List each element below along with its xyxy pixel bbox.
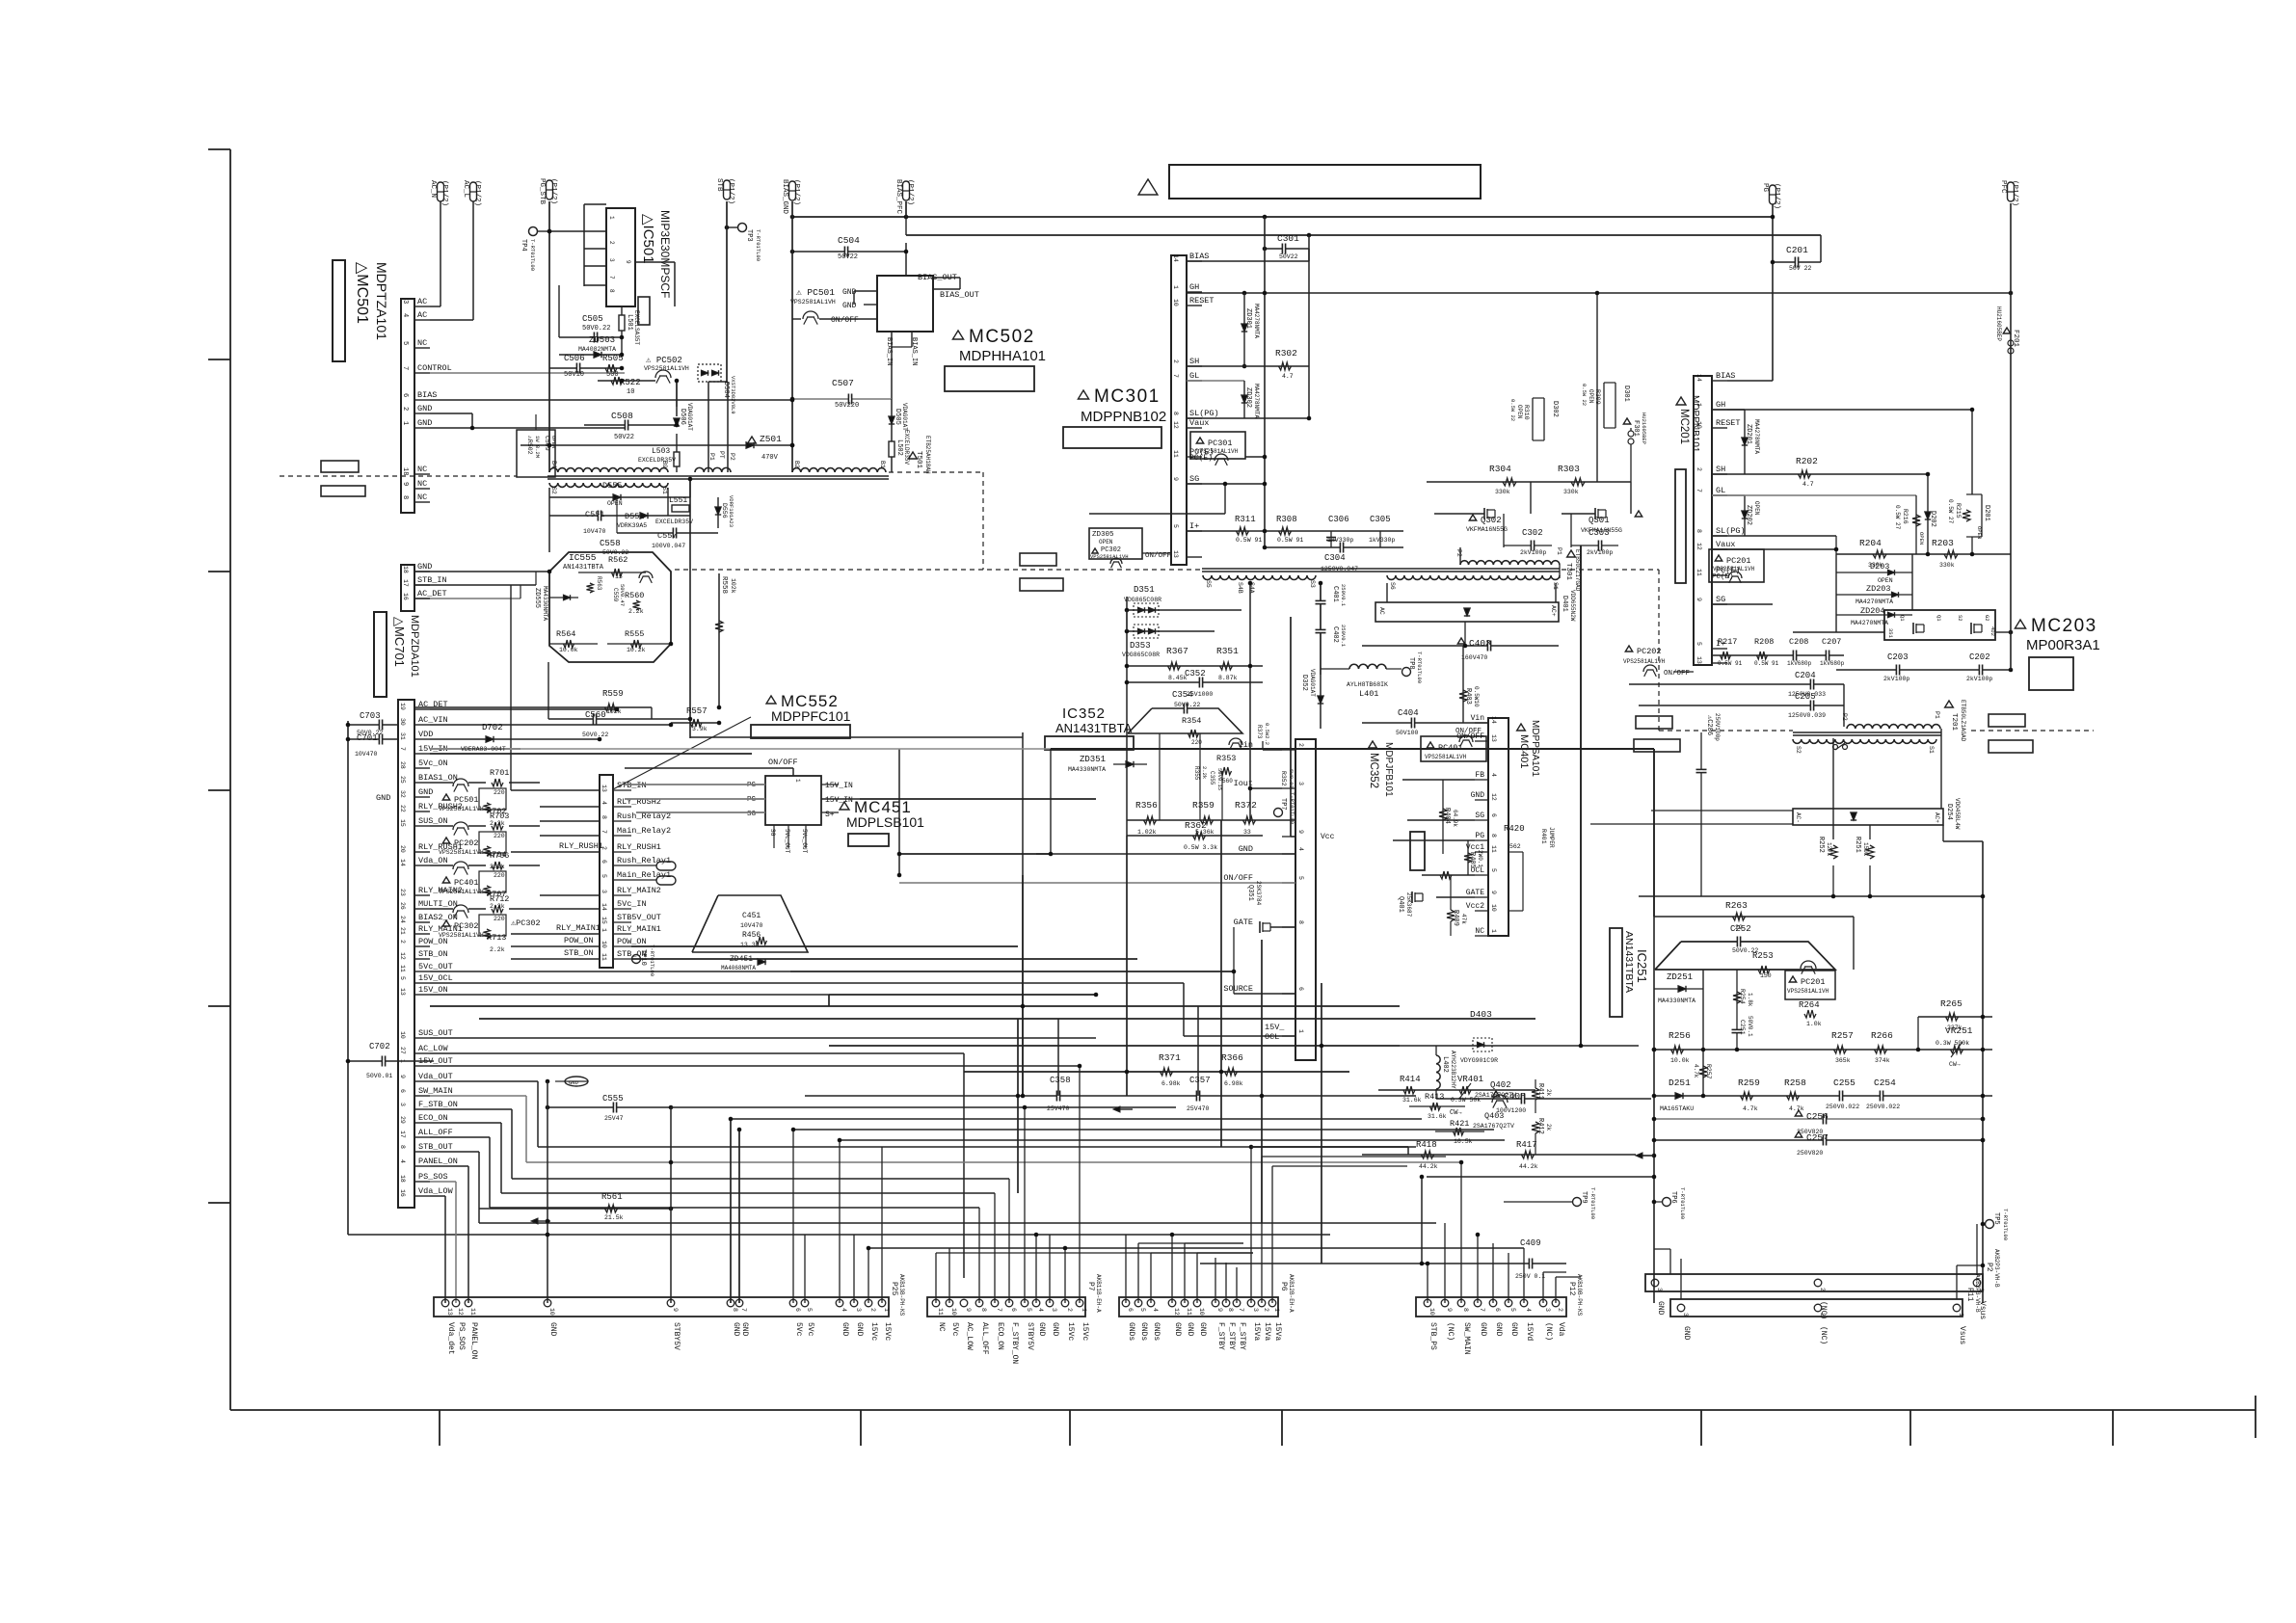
transistor Q301 <box>1635 511 1642 517</box>
svg-text:Q403: Q403 <box>1484 1111 1504 1121</box>
svg-text:2k: 2k <box>1545 1089 1552 1097</box>
test point TP8 <box>1402 668 1411 677</box>
wire Iin <box>1263 749 1282 751</box>
svg-text:P1: P1 <box>1556 547 1562 555</box>
svg-text:1: 1 <box>608 216 615 220</box>
wire vertical x860 from 15V_ON <box>828 995 830 1006</box>
wire PFC vertical <box>2010 203 2012 670</box>
isolation dashed right of T201 <box>1971 730 2094 732</box>
svg-text:C358: C358 <box>1050 1076 1071 1085</box>
svg-text:R418: R418 <box>1416 1140 1437 1150</box>
svg-text:MA4278NMTA: MA4278NMTA <box>1253 384 1260 418</box>
svg-text:8: 8 <box>1227 1308 1234 1312</box>
vertical rail x568 to GND pin <box>547 1081 548 1303</box>
svg-text:R202: R202 <box>1796 456 1818 466</box>
label MC301 MDPPNB102 <box>1078 390 1088 399</box>
svg-text:33: 33 <box>1243 829 1251 836</box>
svg-text:VDD: VDD <box>418 730 433 739</box>
svg-text:STBY5V: STBY5V <box>1026 1322 1034 1350</box>
svg-text:S1: S1 <box>1928 746 1935 754</box>
svg-text:14: 14 <box>1172 254 1179 262</box>
svg-text:12: 12 <box>1695 543 1702 550</box>
svg-text:(NC): (NC) <box>1446 1322 1455 1341</box>
svg-text:B9: B9 <box>661 461 668 468</box>
wire CONTROL <box>430 372 625 374</box>
svg-text:MC401: MC401 <box>1518 734 1530 768</box>
svg-text:R304: R304 <box>1489 464 1511 474</box>
svg-text:R256: R256 <box>1669 1030 1691 1041</box>
wires Q drains <box>1503 514 1505 547</box>
svg-text:Q402: Q402 <box>1490 1080 1511 1090</box>
svg-text:1.0k: 1.0k <box>1806 1021 1822 1027</box>
svg-text:NC: NC <box>417 465 427 474</box>
wire PC501 pin1 down <box>891 332 893 399</box>
svg-text:RLY_MAIN1: RLY_MAIN1 <box>617 924 661 934</box>
wire R356 R359 R372 row <box>1127 819 1295 821</box>
svg-text:Vda_det: Vda_det <box>446 1322 455 1355</box>
wire PG_STB vertical <box>548 201 550 472</box>
svg-text:VPS2581AL1VH: VPS2581AL1VH <box>439 806 484 812</box>
wire bus y1311 C409 <box>1200 1263 1566 1264</box>
svg-text:0.5W 22: 0.5W 22 <box>1509 399 1516 421</box>
svg-text:ZD251: ZD251 <box>1667 972 1693 982</box>
svg-text:GND: GND <box>841 1322 849 1337</box>
svg-text:PG_STB: PG_STB <box>538 178 546 205</box>
svg-text:GNDs: GNDs <box>1139 1322 1148 1341</box>
svg-text:5: 5 <box>1695 642 1702 646</box>
svg-text:VDG865C08R: VDG865C08R <box>1124 597 1161 603</box>
svg-text:560: 560 <box>1222 778 1233 785</box>
svg-text:MC203: MC203 <box>2031 616 2097 636</box>
main vertical x716 <box>689 479 691 738</box>
svg-text:GND: GND <box>1509 1322 1518 1337</box>
svg-text:13: 13 <box>446 1308 453 1316</box>
wire center vertical x1309 <box>1261 940 1263 1223</box>
wire bus y1161 <box>731 1118 1422 1120</box>
resistor R409 <box>1447 910 1455 921</box>
svg-text:VDO45BL4W: VDO45BL4W <box>1954 798 1961 830</box>
svg-text:R561: R561 <box>601 1192 623 1202</box>
svg-text:MDPLSB101: MDPLSB101 <box>846 814 924 830</box>
svg-text:GND: GND <box>1198 1322 1207 1337</box>
svg-text:F_STBY: F_STBY <box>1216 1322 1225 1350</box>
svg-text:Vcc: Vcc <box>1321 833 1335 841</box>
svg-text:RLY_MAIN1: RLY_MAIN1 <box>556 923 601 933</box>
svg-text:220: 220 <box>494 833 505 839</box>
svg-text:ZD555: ZD555 <box>533 588 541 608</box>
svg-text:⚠C286: ⚠C286 <box>1705 715 1713 735</box>
svg-text:C703: C703 <box>360 711 381 721</box>
svg-text:SG: SG <box>1189 474 1199 484</box>
svg-text:3: 3 <box>1051 1308 1057 1312</box>
svg-text:GND: GND <box>1471 791 1485 800</box>
connector P2 <box>1645 1274 1983 1291</box>
fuse F301 <box>1623 418 1630 424</box>
svg-text:R204: R204 <box>1859 538 1882 548</box>
wire R367 R351 row <box>1127 665 1263 667</box>
IC501 left pin rail <box>583 204 585 286</box>
svg-text:GND: GND <box>1682 1326 1691 1341</box>
svg-text:EXCELDR35V: EXCELDR35V <box>655 519 693 525</box>
wire GH long to gate area <box>1187 292 2011 294</box>
svg-text:562: 562 <box>1509 843 1521 850</box>
svg-text:IC251: IC251 <box>1635 949 1649 983</box>
svg-text:T-RT01TL00: T-RT01TL00 <box>755 229 761 261</box>
diode D302 R310 pair <box>1532 398 1534 440</box>
svg-text:OPEN: OPEN <box>1918 532 1925 545</box>
vertical x933 mid <box>898 749 900 875</box>
svg-text:CONTROL: CONTROL <box>417 363 452 373</box>
svg-text:2: 2 <box>1695 467 1702 471</box>
svg-text:5Vc_ON: 5Vc_ON <box>418 758 448 768</box>
svg-text:D203: D203 <box>1870 562 1889 572</box>
svg-text:15V_: 15V_ <box>1265 1023 1285 1032</box>
svg-text:R713: R713 <box>487 933 506 943</box>
svg-text:HU21605BEP: HU21605BEP <box>1641 412 1647 444</box>
wire R256 row <box>1654 1049 1992 1051</box>
svg-text:C257: C257 <box>1806 1132 1829 1143</box>
svg-text:25V47: 25V47 <box>604 1115 624 1122</box>
capacitor C352 row <box>1127 681 1263 683</box>
svg-text:R265: R265 <box>1940 998 1962 1009</box>
svg-text:AC_DET: AC_DET <box>417 589 447 599</box>
wires D504 to transformer taps <box>707 382 709 472</box>
svg-text:30: 30 <box>399 718 406 726</box>
svg-text:R257: R257 <box>1831 1030 1854 1041</box>
svg-text:C357: C357 <box>1189 1076 1211 1085</box>
svg-text:1: 1 <box>1958 1313 1964 1317</box>
svg-text:ETB50LZ1AGAD: ETB50LZ1AGAD <box>1960 700 1966 742</box>
svg-text:STB: STB <box>715 178 723 192</box>
svg-text:ON/OFF: ON/OFF <box>1456 732 1484 741</box>
svg-text:SOURCE: SOURCE <box>1223 984 1253 994</box>
wire MC451 15V_IN right long <box>860 798 1096 800</box>
svg-text:TP8: TP8 <box>1407 657 1415 670</box>
svg-text:P11: P11 <box>1965 1288 1974 1302</box>
wire PANEL_ON down <box>430 1165 468 1167</box>
svg-text:15Va: 15Va <box>1252 1322 1261 1341</box>
wire PG pill down to BIAS <box>1772 204 1774 381</box>
svg-text:11: 11 <box>937 1308 944 1316</box>
svg-text:FB: FB <box>1475 771 1484 780</box>
svg-text:250V0.1: 250V0.1 <box>1340 584 1347 607</box>
svg-text:MIP3E30MPSCF: MIP3E30MPSCF <box>658 210 672 298</box>
svg-text:Vin: Vin <box>1471 714 1485 723</box>
wire pin9 rail <box>1290 617 1292 837</box>
wire R204 R203 row <box>1836 553 2011 555</box>
wire Vcc1 Vcc2 NC stubs <box>1508 851 1523 853</box>
capacitor C402 <box>1316 628 1326 630</box>
svg-text:C404: C404 <box>1398 708 1419 718</box>
svg-text:4: 4 <box>401 313 409 317</box>
svg-text:C506: C506 <box>564 354 585 363</box>
connector relay STB_IN box <box>600 775 613 968</box>
svg-text:SUS_OUT: SUS_OUT <box>418 1028 453 1038</box>
svg-text:SG: SG <box>1475 811 1484 820</box>
svg-text:OPEN: OPEN <box>1516 405 1523 419</box>
svg-text:AC+: AC+ <box>1550 605 1557 617</box>
svg-text:2: 2 <box>1263 1308 1269 1312</box>
svg-text:(P1/2): (P1/2) <box>727 178 734 204</box>
svg-text:6: 6 <box>1010 1308 1017 1312</box>
svg-text:0.5W2.2: 0.5W2.2 <box>1264 723 1270 745</box>
svg-text:MC352: MC352 <box>1368 753 1379 788</box>
diode D301 R309 pair <box>1603 383 1605 428</box>
svg-text:14: 14 <box>601 903 607 911</box>
svg-text:L401: L401 <box>1359 689 1378 699</box>
svg-text:Vcc2: Vcc2 <box>1466 902 1484 911</box>
wire AC_N to pin3 <box>440 201 441 306</box>
connector MC501 <box>401 299 414 513</box>
svg-text:VPS2581AL1VH: VPS2581AL1VH <box>439 932 484 939</box>
svg-text:ZD351: ZD351 <box>1080 755 1106 764</box>
svg-text:R354: R354 <box>1182 716 1201 726</box>
resistor R411 <box>1532 1088 1539 1100</box>
svg-text:13.3k: 13.3k <box>740 942 760 948</box>
svg-text:24: 24 <box>399 916 406 923</box>
svg-text:AC+: AC+ <box>1934 812 1940 823</box>
svg-text:11: 11 <box>469 1308 476 1316</box>
svg-text:13: 13 <box>601 785 607 792</box>
svg-text:5: 5 <box>1139 1308 1146 1312</box>
connector MC701 main <box>398 700 414 1208</box>
svg-text:9: 9 <box>1216 1308 1223 1312</box>
svg-text:MC201: MC201 <box>1678 409 1690 444</box>
svg-text:50V0.01: 50V0.01 <box>366 1073 392 1079</box>
svg-text:R409: R409 <box>1452 910 1459 926</box>
wire C256 row <box>1654 1118 1983 1120</box>
wire GND long <box>1036 853 1295 855</box>
vertical x1358 <box>1308 235 1310 418</box>
svg-text:D302: D302 <box>1551 401 1559 417</box>
R502 C509 box <box>517 430 555 477</box>
svg-text:(P1/2): (P1/2) <box>792 179 800 205</box>
svg-text:R414: R414 <box>1400 1075 1421 1084</box>
svg-text:4: 4 <box>841 1308 847 1312</box>
svg-text:B1: B1 <box>879 461 886 468</box>
relay coil pills <box>656 862 676 870</box>
wire GH long right <box>1712 409 1972 411</box>
svg-text:SW_MAIN: SW_MAIN <box>1462 1322 1471 1355</box>
svg-text:R555: R555 <box>625 629 644 639</box>
svg-text:(NC): (NC) <box>1544 1322 1553 1341</box>
svg-text:330k: 330k <box>1495 489 1510 495</box>
wire GND pin2 <box>430 412 472 414</box>
svg-text:365k: 365k <box>1835 1057 1851 1064</box>
svg-text:S2: S2 <box>1795 746 1802 754</box>
svg-text:Main_Relay1: Main_Relay1 <box>617 870 671 880</box>
regulator IC352 trapezoid <box>1128 708 1242 733</box>
test point TP10 <box>632 955 641 964</box>
svg-text:MA4330NMTA: MA4330NMTA <box>542 586 548 621</box>
label MC203 MP00R3A1 <box>2015 620 2025 628</box>
GND net pill <box>565 1077 588 1086</box>
capacitor C403 line <box>1362 645 1559 647</box>
wire D251 row <box>1654 1095 1992 1097</box>
svg-text:GL: GL <box>1189 371 1199 381</box>
wire C403 row into MC401 Vin <box>1362 722 1488 724</box>
svg-text:(P1/2): (P1/2) <box>2011 180 2018 206</box>
svg-text:7: 7 <box>996 1308 1002 1312</box>
T301 label <box>1567 550 1576 557</box>
svg-text:EXCELDR35V: EXCELDR35V <box>638 457 676 464</box>
resistor R265 loop <box>1918 1016 1992 1018</box>
wire ALL_OFF staircase <box>430 1136 490 1138</box>
IC501 value box <box>638 297 650 325</box>
svg-text:9: 9 <box>1297 830 1304 834</box>
svg-text:AC: AC <box>417 297 427 306</box>
svg-text:5Vc_IN: 5Vc_IN <box>617 899 647 909</box>
svg-text:T-RT01TL00: T-RT01TL00 <box>1416 652 1423 683</box>
svg-text:R420: R420 <box>1504 824 1525 834</box>
svg-text:1: 1 <box>1490 929 1497 933</box>
wire y995 center extension <box>631 958 1137 960</box>
svg-text:C559: C559 <box>612 588 619 602</box>
wire vertical x1061 lower <box>1022 875 1024 1096</box>
svg-text:PC(E): PC(E) <box>1189 454 1213 463</box>
wire y1057 long <box>479 1018 1535 1020</box>
svg-text:TP4: TP4 <box>520 239 527 252</box>
connector MC701 upper stub <box>401 565 414 611</box>
svg-text:BIAS_GND: BIAS_GND <box>781 179 788 215</box>
svg-text:2.2k: 2.2k <box>1201 766 1208 780</box>
svg-text:R309: R309 <box>1594 389 1601 405</box>
svg-text:C558: C558 <box>600 539 621 548</box>
svg-text:0.5W 91: 0.5W 91 <box>1718 660 1743 667</box>
svg-text:C508: C508 <box>611 411 633 421</box>
svg-text:S3: S3 <box>1309 580 1316 588</box>
regulator IC451 trapezoid block <box>692 895 808 952</box>
svg-text:AKB10B-PH-KS: AKB10B-PH-KS <box>1576 1274 1583 1317</box>
svg-text:C401: C401 <box>1331 586 1339 602</box>
zener ZD301 <box>1243 293 1245 366</box>
svg-text:AN1431TBTA: AN1431TBTA <box>1055 721 1133 735</box>
svg-text:PC201: PC201 <box>1726 556 1751 566</box>
wire I+ row R311 R308 C306 C305 <box>1187 530 1403 532</box>
wire 15V_ON extension <box>829 994 1096 996</box>
svg-text:1: 1 <box>794 779 801 783</box>
svg-text:5Vc_OUT: 5Vc_OUT <box>418 962 453 971</box>
wire SW_MAIN staircase <box>430 1095 526 1097</box>
svg-text:15V_ON: 15V_ON <box>418 985 448 995</box>
svg-text:G2: G2 <box>1984 615 1990 622</box>
svg-text:8.87k: 8.87k <box>1218 675 1238 681</box>
svg-text:C203: C203 <box>1887 652 1909 662</box>
zener ZD203 row <box>1836 594 1912 596</box>
svg-text:R352: R352 <box>1280 771 1287 786</box>
svg-text:ETB50LZ17GAD: ETB50LZ17GAD <box>1574 549 1581 592</box>
svg-text:AC_LOW: AC_LOW <box>418 1044 449 1053</box>
transformer T501 core <box>547 475 889 477</box>
resistor R558 rail <box>718 573 720 707</box>
verticals in MC203 ladder <box>1835 554 1837 632</box>
svg-text:C304: C304 <box>1324 553 1346 563</box>
svg-text:12: 12 <box>1490 793 1497 801</box>
wire P1 down <box>1559 565 1561 578</box>
svg-text:R367: R367 <box>1166 646 1188 656</box>
svg-text:10V470: 10V470 <box>583 528 606 535</box>
svg-text:Vda: Vda <box>1557 1322 1565 1337</box>
wire bus y1172 <box>793 1129 1494 1131</box>
svg-text:2: 2 <box>1557 1308 1563 1312</box>
svg-text:15Vc: 15Vc <box>1081 1322 1089 1341</box>
svg-text:11: 11 <box>1172 450 1179 458</box>
svg-text:PG: PG <box>1475 832 1484 840</box>
svg-text:R703: R703 <box>490 811 509 821</box>
wire STB_IN from MC701 to relay box <box>511 789 600 791</box>
svg-text:ON/OFF: ON/OFF <box>768 758 798 767</box>
svg-text:R252: R252 <box>1817 837 1825 853</box>
svg-text:3: 3 <box>1656 1288 1663 1291</box>
svg-text:100V0.047: 100V0.047 <box>652 543 685 549</box>
svg-text:STB5V_OUT: STB5V_OUT <box>617 913 661 922</box>
wires P2 P11 feeds <box>1669 1249 1671 1274</box>
svg-text:25V470: 25V470 <box>1047 1105 1070 1112</box>
svg-text:(P1/2): (P1/2) <box>441 180 448 206</box>
main right rail x2057 <box>1982 841 1984 1303</box>
svg-text:R404: R404 <box>1443 808 1451 824</box>
page border left line <box>229 149 231 1410</box>
wire ON/OFF long <box>899 882 1295 884</box>
svg-text:8: 8 <box>1490 834 1497 838</box>
svg-text:3S1: 3S1 <box>1887 628 1894 639</box>
T201 label <box>1945 701 1954 707</box>
svg-text:BIAS: BIAS <box>1189 252 1209 261</box>
connector stub AC_N (P1/2) <box>438 182 444 201</box>
svg-text:C507: C507 <box>832 378 854 388</box>
wire bus y1198 R418 R417 <box>1362 1154 1636 1156</box>
wire C257 row <box>1654 1139 1983 1141</box>
svg-text:10: 10 <box>1172 299 1179 306</box>
svg-text:7: 7 <box>601 830 607 834</box>
resistor R405 <box>1467 840 1469 875</box>
transformer T201 core <box>1793 732 1941 733</box>
svg-text:Vda_ON: Vda_ON <box>418 856 448 865</box>
svg-text:⚠R502: ⚠R502 <box>526 435 533 455</box>
svg-text:MA4278NMTA: MA4278NMTA <box>1753 419 1760 454</box>
svg-text:5: 5 <box>1172 524 1179 528</box>
opto PC301 box <box>1190 432 1245 459</box>
svg-text:C207: C207 <box>1822 637 1841 647</box>
svg-text:12: 12 <box>1173 1308 1180 1316</box>
wire y982 center extension <box>631 945 1018 947</box>
test point TP6 <box>1663 1198 1671 1207</box>
svg-text:D353: D353 <box>1130 641 1151 651</box>
wire x1475 vertical to C409 <box>1421 1177 1423 1264</box>
svg-text:18: 18 <box>402 566 409 573</box>
wire AC_VIN pin30 right <box>430 724 671 726</box>
svg-text:5Vc_OUT: 5Vc_OUT <box>801 829 808 854</box>
wire OCL <box>1422 874 1475 876</box>
svg-text:ZD503: ZD503 <box>589 335 615 345</box>
wire bus y1149 right part <box>671 1106 1176 1108</box>
vertical rail x696 STBY5V <box>670 1107 672 1303</box>
svg-text:CW→: CW→ <box>1949 1061 1961 1068</box>
svg-text:4.7: 4.7 <box>1282 373 1294 380</box>
barrier jumper rects right <box>1989 714 2025 727</box>
wire bus y1137 C358 C357 <box>805 1095 1416 1097</box>
svg-text:2kV100p: 2kV100p <box>1520 549 1546 556</box>
svg-text:44.2k: 44.2k <box>1419 1163 1438 1170</box>
svg-text:2: 2 <box>869 1308 876 1312</box>
label block MC701 MDPZDA101 <box>374 612 387 697</box>
label MC451 MDPLSB101 <box>840 802 849 810</box>
wire SL PG <box>1187 417 1309 419</box>
svg-text:L503: L503 <box>652 447 670 456</box>
svg-text:5: 5 <box>1297 876 1304 880</box>
svg-text:BIAS2_ON: BIAS2_ON <box>418 913 458 922</box>
box ZD305 PC302 <box>1089 528 1142 559</box>
